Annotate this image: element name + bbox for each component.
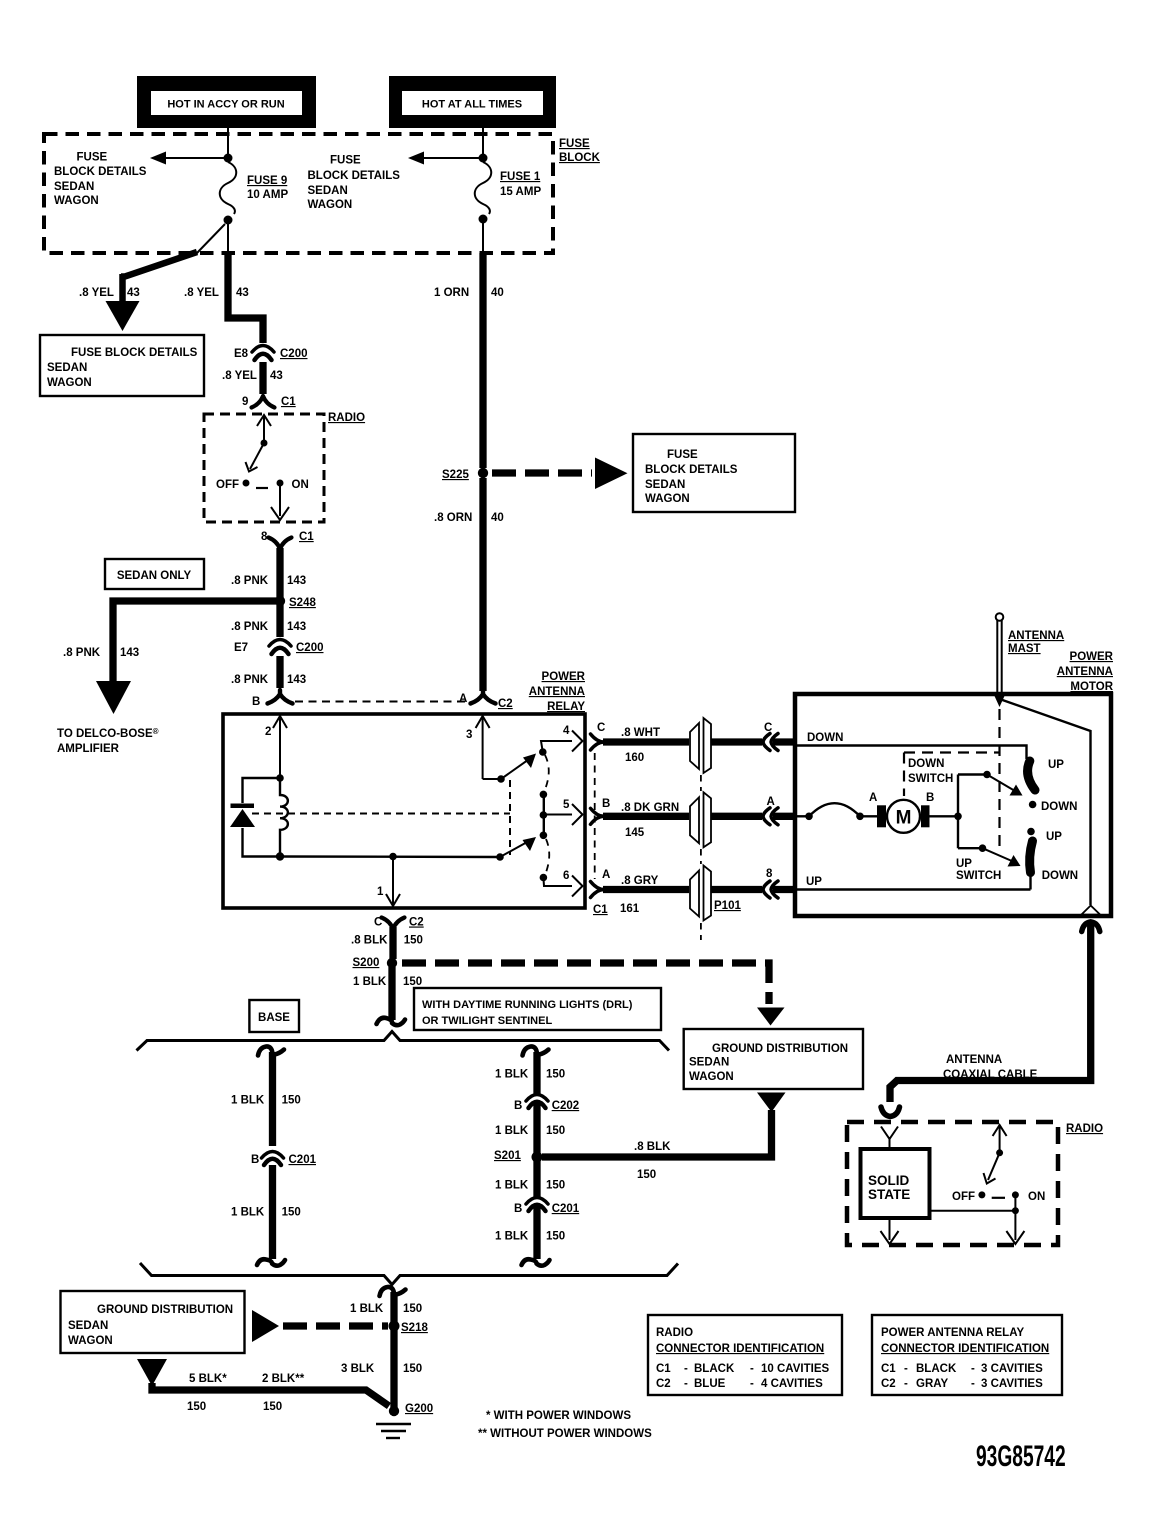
label .8 DK GRN 145 [621, 802, 679, 839]
radio switch arm [246, 443, 265, 472]
svg-text:150: 150 [546, 1180, 565, 1192]
radio pin 9 arrow [257, 415, 271, 441]
antenna symbol in radio [881, 1127, 898, 1151]
label .8 PNK 143 [231, 575, 306, 587]
svg-text:GROUND DISTRIBUTION: GROUND DISTRIBUTION [97, 1304, 233, 1316]
antenna coaxial cable arrow [1082, 922, 1100, 932]
dashed grouping line P101 [700, 775, 702, 940]
relay pin 6 arrow [563, 870, 583, 897]
svg-text:C202: C202 [552, 1100, 580, 1112]
svg-text:WAGON: WAGON [308, 199, 353, 211]
wire .8 PNK 143 below S248 [276, 603, 283, 637]
wire contact to pin 4 [541, 741, 572, 752]
svg-text:UP: UP [806, 876, 822, 888]
label .8 PNK 143 (amplifier wire) [63, 647, 139, 659]
svg-text:150: 150 [263, 1401, 282, 1413]
svg-text:C200: C200 [296, 642, 324, 654]
svg-text:FUSE 1: FUSE 1 [500, 171, 541, 183]
svg-text:SEDAN: SEDAN [689, 1057, 729, 1069]
label .8 ORN 40 [434, 512, 504, 524]
label POWER ANTENNA RELAY [529, 671, 586, 713]
antenna mast [995, 613, 1005, 707]
bottom notch triangle [1082, 906, 1101, 915]
arrow below ground distribution (right) [757, 1093, 786, 1113]
radio2 output arrow down (right) [1006, 1211, 1024, 1244]
wire fuse1 down [482, 223, 484, 253]
wire 1 BLK 150 below S200 [388, 967, 395, 1020]
dashed linkage vertical [509, 780, 511, 855]
svg-text:.8 GRY: .8 GRY [621, 875, 659, 887]
node down switch pivot [983, 771, 991, 779]
svg-text:40: 40 [491, 287, 504, 299]
svg-text:BASE: BASE [258, 1012, 290, 1024]
svg-text:MAST: MAST [1008, 643, 1041, 655]
svg-text:5 BLK*: 5 BLK* [189, 1373, 227, 1385]
node mid contact (pin5) [540, 811, 548, 819]
left branch wire 1 BLK [269, 1052, 276, 1146]
svg-text:1: 1 [377, 886, 384, 898]
relay bottom wire [280, 855, 500, 858]
svg-text:150: 150 [404, 935, 423, 947]
svg-text:2: 2 [265, 726, 271, 738]
node lower switch pivot [496, 853, 504, 861]
svg-text:A: A [869, 792, 877, 804]
dashed connector grouping line C1 (relay side) [594, 753, 596, 879]
svg-text:C2: C2 [498, 698, 513, 710]
svg-text:5: 5 [563, 799, 570, 811]
svg-text:ON: ON [292, 479, 309, 491]
svg-text:GROUND DISTRIBUTION: GROUND DISTRIBUTION [712, 1043, 848, 1055]
svg-text:C1: C1 [299, 531, 314, 543]
wire ON contact down [1014, 1195, 1016, 1211]
radio2 switch dash [992, 1197, 1005, 1199]
svg-text:1 BLK: 1 BLK [495, 1180, 529, 1192]
svg-text:161: 161 [620, 903, 640, 915]
power antenna relay connector identification box [872, 1315, 1062, 1395]
label 2 BLK** 150 [262, 1373, 305, 1413]
svg-text:WAGON: WAGON [68, 1335, 113, 1347]
right branch hook top [523, 1046, 549, 1055]
svg-text:43: 43 [127, 287, 140, 299]
ground distribution box (right) [684, 1029, 863, 1089]
wire 5 BLK / 2 BLK to G200 [152, 1383, 389, 1406]
svg-text:143: 143 [120, 647, 139, 659]
svg-text:B: B [926, 792, 934, 804]
node fuse9 bottom [224, 216, 233, 225]
svg-text:15 AMP: 15 AMP [500, 186, 541, 198]
arrow to fuse block details (right) [408, 152, 479, 165]
splice S218 [389, 1321, 400, 1332]
svg-text:.8 PNK: .8 PNK [231, 621, 269, 633]
svg-text:E8: E8 [234, 348, 249, 360]
relay coil L1 [280, 778, 288, 857]
radio2 ON contact [1012, 1191, 1019, 1198]
label ANTENNA MAST [1008, 630, 1064, 655]
svg-text:C201: C201 [552, 1203, 580, 1215]
svg-text:.8 PNK: .8 PNK [63, 647, 101, 659]
svg-text:C: C [597, 722, 605, 734]
svg-text:C1: C1 [281, 396, 296, 408]
relay output fork C [591, 722, 606, 750]
svg-text:3: 3 [466, 729, 472, 741]
svg-text:OFF: OFF [952, 1191, 975, 1203]
label .8 YEL 43 (main) [184, 287, 249, 299]
label .8 BLK 150 (S201 wire) [634, 1141, 671, 1181]
svg-text:MOTOR: MOTOR [1070, 681, 1113, 693]
arrow to fuse block details (left) [150, 152, 224, 165]
motor M1 [887, 800, 920, 833]
wire row3 to motor [711, 886, 762, 893]
svg-text:BLOCK DETAILS: BLOCK DETAILS [54, 166, 147, 178]
node up switch pivot [979, 844, 987, 852]
fuse block dashed box [44, 134, 553, 253]
svg-text:150: 150 [187, 1401, 206, 1413]
svg-text:B: B [514, 1203, 522, 1215]
power feed box HOT AT ALL TIMES [389, 76, 556, 128]
svg-text:.8 PNK: .8 PNK [231, 575, 269, 587]
note power windows [478, 1410, 652, 1440]
svg-text:.8 YEL: .8 YEL [79, 287, 114, 299]
svg-text:BLOCK: BLOCK [559, 152, 601, 164]
label .8 PNK 143 [231, 674, 306, 686]
svg-text:CONNECTOR IDENTIFICATION: CONNECTOR IDENTIFICATION [881, 1343, 1049, 1355]
connector fork 8 (motor side) [763, 868, 778, 898]
radio connector identification box [648, 1315, 842, 1395]
ground distribution box (left) [61, 1291, 245, 1353]
radio2 output arrow down (left) [881, 1218, 899, 1244]
svg-text:150: 150 [403, 976, 422, 988]
wire from HOT IN ACCY feed [227, 128, 229, 156]
dashed wire from S225 to fuse block details [492, 469, 592, 476]
arrow down to fuse block details box [106, 301, 140, 331]
svg-text:1 BLK: 1 BLK [231, 1207, 265, 1219]
svg-text:WAGON: WAGON [54, 195, 99, 207]
svg-text:* WITH POWER WINDOWS: * WITH POWER WINDOWS [486, 1410, 631, 1422]
radio dashed box (bottom) [847, 1122, 1058, 1245]
label TO DELCO-BOSE AMPLIFIER [57, 727, 159, 755]
svg-text:AMPLIFIER: AMPLIFIER [57, 743, 120, 755]
svg-text:.8 PNK: .8 PNK [231, 674, 269, 686]
splice S200 [387, 958, 397, 968]
svg-text:WITH DAYTIME RUNNING LIGHTS (D: WITH DAYTIME RUNNING LIGHTS (DRL) [422, 999, 633, 1011]
dashed wire S200 to ground distribution [402, 963, 769, 1004]
wire from down arc to UP row [1029, 873, 1031, 890]
wire .8 YEL 43 below C200 [259, 362, 266, 394]
dashed wire to S218 [283, 1322, 388, 1329]
svg-text:TO DELCO-BOSE®: TO DELCO-BOSE® [57, 727, 159, 740]
svg-text:1 BLK: 1 BLK [495, 1125, 529, 1137]
upper switch arm [501, 754, 536, 780]
svg-text:RADIO: RADIO [656, 1327, 693, 1339]
label 1 BLK 150 (below S201) [495, 1180, 565, 1192]
wire DOWN row1 [797, 746, 1027, 760]
down switch arm [987, 775, 1023, 796]
node hump right [856, 813, 864, 821]
ground G200 [376, 1403, 433, 1438]
connector C2 terminal B (relay) [252, 690, 293, 708]
node upper switch pivot [497, 775, 505, 783]
radio2 switch pivot [996, 1149, 1003, 1156]
node fuse1 bottom [479, 215, 488, 224]
BASE box [249, 1000, 299, 1032]
connector C200 terminal E8 (inline) [234, 346, 308, 361]
svg-text:B: B [251, 1154, 259, 1166]
radio switch pivot node [261, 440, 268, 447]
connector C202 terminal B [514, 1095, 579, 1113]
label .8 BLK 150 [351, 935, 423, 947]
wire row1 to motor [711, 738, 762, 745]
label POWER ANTENNA MOTOR [1057, 651, 1114, 693]
inline connector row3 P101 [690, 866, 741, 921]
svg-text:SEDAN: SEDAN [645, 479, 685, 491]
svg-text:143: 143 [287, 621, 306, 633]
wire to motor terminal A [860, 815, 877, 817]
svg-text:C201: C201 [289, 1154, 317, 1166]
svg-text:STATE: STATE [868, 1187, 910, 1202]
wire fuse9 down [227, 224, 229, 253]
svg-text:DOWN: DOWN [908, 758, 944, 770]
svg-text:S225: S225 [442, 469, 469, 481]
svg-text:G200: G200 [405, 1403, 433, 1415]
coax arrow into radio [881, 1107, 900, 1117]
svg-text:RADIO: RADIO [328, 412, 365, 424]
svg-text:POWER: POWER [542, 671, 586, 683]
svg-text:B: B [252, 696, 260, 708]
wire 1 BLK 150 to S218 [390, 1292, 397, 1322]
svg-text:C1: C1 [593, 904, 608, 916]
riser wire [957, 775, 959, 849]
svg-text:150: 150 [403, 1363, 422, 1375]
power antenna motor box [795, 694, 1111, 916]
label 1 BLK 150 (left lower) [231, 1207, 301, 1219]
left branch hook bottom [257, 1259, 285, 1265]
label .8 YEL 43 (branch) [79, 287, 140, 299]
svg-text:150: 150 [637, 1169, 656, 1181]
svg-text:SOLID: SOLID [868, 1173, 910, 1188]
svg-text:1 BLK: 1 BLK [495, 1069, 529, 1081]
svg-text:FUSE: FUSE [77, 152, 108, 164]
svg-text:DOWN: DOWN [1041, 801, 1077, 813]
svg-text:UP: UP [956, 858, 972, 870]
svg-text:8: 8 [766, 868, 773, 880]
left branch wire lower [269, 1165, 276, 1259]
svg-text:DOWN: DOWN [1042, 870, 1078, 882]
label 1 BLK 150 (S218) [350, 1303, 422, 1315]
up contact arc (down switch) [1028, 761, 1035, 790]
node coil top [276, 774, 284, 782]
svg-text:S200: S200 [353, 957, 380, 969]
down contact arc (up switch) [1030, 841, 1033, 873]
node pin1 junction [389, 853, 397, 861]
svg-text:E7: E7 [234, 642, 248, 654]
dashed contact arc upper [544, 755, 549, 792]
relay pin 1 arrow [377, 857, 400, 907]
label UP SWITCH [956, 858, 1001, 882]
wire .8 DK GRN 145 [603, 813, 689, 820]
svg-text:POWER: POWER [1070, 651, 1114, 663]
svg-text:9: 9 [242, 396, 248, 408]
right branch hook bottom [522, 1259, 550, 1265]
svg-text:150: 150 [282, 1095, 301, 1107]
svg-text:4: 4 [563, 725, 570, 737]
svg-text:M: M [896, 808, 912, 829]
wire .8 PNK 143 [276, 548, 283, 599]
label fuse block details sedan wagon (left) [54, 152, 147, 208]
down switch pivot wire [958, 773, 987, 775]
dashed connector line C2 [295, 701, 468, 703]
relay pin 3 arrow [466, 716, 490, 779]
svg-text:S248: S248 [289, 597, 316, 609]
wire mid contact bar [543, 794, 545, 835]
wire from HOT AT ALL TIMES feed [482, 128, 484, 156]
svg-text:.8 ORN: .8 ORN [434, 512, 472, 524]
svg-text:OR TWILIGHT SENTINEL: OR TWILIGHT SENTINEL [422, 1015, 552, 1027]
fuse block details box (middle right) [633, 434, 795, 512]
up switch pivot wire [958, 847, 983, 849]
label 5 BLK* 150 [187, 1373, 227, 1413]
label 1 BLK 150 (right bottom) [495, 1231, 565, 1243]
svg-text:1 BLK: 1 BLK [495, 1231, 529, 1243]
svg-text:10 AMP: 10 AMP [247, 189, 288, 201]
svg-text:POWER ANTENNA RELAY: POWER ANTENNA RELAY [881, 1327, 1024, 1339]
svg-text:6: 6 [563, 870, 569, 882]
inline connector row2 [690, 792, 711, 847]
node mid contact top [540, 791, 548, 799]
wire row2 to motor [711, 813, 762, 820]
relay U1 box [223, 714, 585, 908]
label 1 ORN 40 [434, 287, 504, 299]
radio2 switch arm [984, 1153, 1000, 1184]
node fuse9 top [224, 154, 233, 163]
label DOWN SWITCH [908, 758, 953, 785]
hook below lower brace [380, 1287, 406, 1296]
lower switch arm [500, 837, 536, 857]
svg-text:ANTENNA: ANTENNA [1008, 630, 1064, 642]
svg-text:SWITCH: SWITCH [956, 870, 1001, 882]
label 1 BLK 150 (left upper) [231, 1095, 301, 1107]
wire hook into brace [377, 1018, 406, 1025]
svg-text:RELAY: RELAY [547, 701, 585, 713]
svg-text:SEDAN: SEDAN [308, 185, 348, 197]
arrow to ground distribution (bottom left) [137, 1359, 167, 1386]
svg-text:2 BLK**: 2 BLK** [262, 1373, 305, 1385]
svg-text:HOT IN ACCY OR RUN: HOT IN ACCY OR RUN [167, 99, 284, 111]
fuse F9 symbol [220, 162, 237, 214]
svg-text:ANTENNA: ANTENNA [529, 686, 585, 698]
left branch hook top [258, 1046, 284, 1055]
inline connector row1 [690, 718, 711, 773]
wire motor B to riser [930, 815, 959, 817]
wire to Delco-Bose amplifier [113, 601, 280, 682]
node coil bottom [276, 852, 284, 860]
wire 3 BLK 150 [390, 1330, 397, 1408]
connector C2 terminal A (relay) [459, 690, 513, 710]
svg-text:S218: S218 [401, 1322, 428, 1334]
svg-text:.8 BLK: .8 BLK [634, 1141, 671, 1153]
splice S201 [532, 1152, 543, 1163]
wire .8 YEL branch to fuse block details [121, 252, 197, 303]
motor terminal A [869, 792, 886, 827]
fuse F1 symbol [475, 162, 492, 214]
svg-text:.8 BLK: .8 BLK [351, 935, 388, 947]
svg-text:.8 YEL: .8 YEL [184, 287, 219, 299]
svg-text:43: 43 [236, 287, 249, 299]
svg-text:A: A [602, 869, 610, 881]
right branch wire bottom [533, 1207, 540, 1259]
svg-text:150: 150 [546, 1125, 565, 1137]
svg-text:C200: C200 [280, 348, 308, 360]
svg-text:RADIO: RADIO [1066, 1123, 1103, 1135]
wire hump [809, 803, 860, 816]
wire .8 PNK 143 below C200 E7 [276, 656, 283, 688]
splice S248 [275, 596, 285, 606]
relay output fork B [591, 798, 611, 824]
svg-text:SEDAN: SEDAN [54, 181, 94, 193]
connector fork A (motor side) [763, 796, 778, 825]
radio dashed box [204, 414, 324, 522]
svg-text:1 ORN: 1 ORN [434, 287, 469, 299]
connector C200 terminal E7 (inline) [234, 640, 324, 655]
radio2 switch arrow up [993, 1125, 1007, 1151]
arrow to amplifier [96, 681, 131, 714]
svg-text:43: 43 [270, 370, 283, 382]
svg-text:DOWN: DOWN [807, 732, 843, 744]
svg-text:WAGON: WAGON [689, 1071, 734, 1083]
svg-text:WAGON: WAGON [47, 377, 92, 389]
wire diode branch [243, 778, 281, 857]
wire to pin 6 [543, 878, 572, 887]
dashed linkage from coil [252, 813, 510, 815]
svg-text:150: 150 [403, 1303, 422, 1315]
svg-text:WAGON: WAGON [645, 493, 690, 505]
svg-text:150: 150 [546, 1231, 565, 1243]
svg-text:FUSE 9: FUSE 9 [247, 175, 287, 187]
arrow into ground distribution (right) [757, 1008, 785, 1026]
label FUSE 1 15 AMP [500, 171, 541, 198]
svg-text:ANTENNA: ANTENNA [1057, 666, 1113, 678]
wire .8 WHT 160 [603, 738, 689, 745]
node DOWN contact [1029, 801, 1037, 809]
radio OFF contact [243, 480, 250, 487]
label 1 BLK 150 (above S201) [495, 1125, 565, 1137]
svg-text:COAXIAL CABLE: COAXIAL CABLE [943, 1069, 1038, 1081]
motor terminal B [921, 792, 934, 827]
label 1 BLK 150 (right top) [495, 1069, 565, 1081]
svg-text:FUSE: FUSE [330, 155, 361, 167]
node mid contact bottom [540, 832, 548, 840]
svg-text:SEDAN: SEDAN [68, 1320, 108, 1332]
label ANTENNA COAXIAL CABLE [943, 1054, 1038, 1081]
svg-text:1 BLK: 1 BLK [231, 1095, 265, 1107]
svg-text:P101: P101 [714, 900, 741, 912]
splice S225 [478, 468, 488, 478]
svg-text:HOT AT ALL TIMES: HOT AT ALL TIMES [422, 99, 522, 111]
switch middle dash [256, 487, 268, 489]
svg-text:BLOCK DETAILS: BLOCK DETAILS [645, 464, 738, 476]
arrow to fuse block details (S225) [595, 458, 628, 490]
svg-text:SWITCH: SWITCH [908, 773, 953, 785]
wire stub row2 [797, 815, 809, 817]
relay output fork A [591, 869, 611, 916]
svg-text:1 BLK: 1 BLK [353, 976, 387, 988]
label .8 WHT 160 [621, 727, 660, 764]
mast drive diagonal [1001, 700, 1091, 906]
svg-text:UP: UP [1048, 759, 1064, 771]
svg-text:143: 143 [287, 575, 306, 587]
svg-text:S201: S201 [494, 1150, 521, 1162]
connector C201 terminal B (right) [514, 1198, 580, 1216]
svg-text:B: B [602, 798, 610, 810]
